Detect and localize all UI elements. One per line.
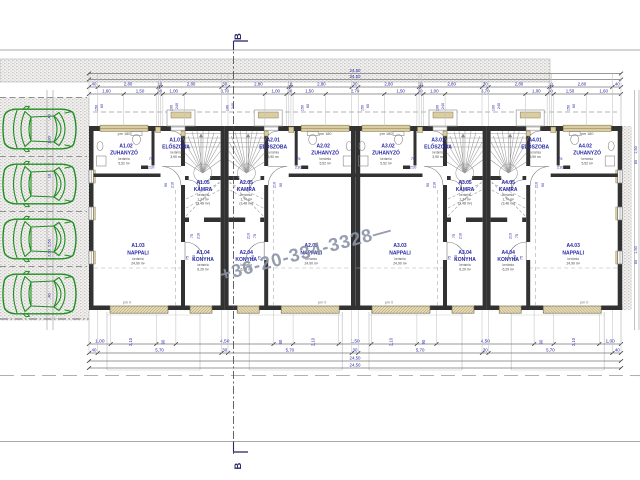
svg-text:2,60: 2,60 <box>47 248 52 257</box>
svg-text:90: 90 <box>421 339 426 344</box>
svg-text:5,70: 5,70 <box>286 347 295 352</box>
svg-text:10: 10 <box>287 81 292 86</box>
svg-text:A4.03: A4.03 <box>567 243 581 249</box>
svg-text:A1.02: A1.02 <box>119 144 133 150</box>
svg-text:1,00: 1,00 <box>430 88 439 93</box>
svg-text:60: 60 <box>634 160 638 164</box>
svg-text:30: 30 <box>353 347 358 352</box>
svg-text:2,10: 2,10 <box>571 337 576 346</box>
svg-text:90: 90 <box>164 183 168 187</box>
svg-text:1,00: 1,00 <box>605 338 615 344</box>
svg-text:(3,48 m²): (3,48 m²) <box>239 202 253 206</box>
svg-text:pm 0: pm 0 <box>580 300 588 304</box>
svg-text:,40: ,40 <box>614 81 621 86</box>
svg-text:ELŐSZOBA: ELŐSZOBA <box>259 144 287 151</box>
svg-text:ZUHANYZÓ: ZUHANYZÓ <box>372 149 400 157</box>
svg-text:A2.01: A2.01 <box>267 138 281 144</box>
svg-text:90: 90 <box>279 183 283 187</box>
svg-text:2,80: 2,80 <box>187 81 196 86</box>
svg-text:10: 10 <box>157 81 162 86</box>
svg-text:210: 210 <box>535 182 539 188</box>
svg-text:A2.02: A2.02 <box>317 144 331 150</box>
svg-text:240: 240 <box>441 103 445 109</box>
svg-text:A3.02: A3.02 <box>381 144 395 150</box>
svg-text:75: 75 <box>411 156 416 161</box>
svg-text:A3.05: A3.05 <box>458 180 472 186</box>
svg-text:1,00: 1,00 <box>169 88 178 93</box>
svg-text:6,29 m²: 6,29 m² <box>459 267 471 271</box>
svg-text:150: 150 <box>95 105 99 111</box>
svg-text:210: 210 <box>454 255 458 261</box>
svg-text:(3,48 m²): (3,48 m²) <box>501 202 515 206</box>
svg-text:B: B <box>233 462 244 469</box>
svg-text:10: 10 <box>47 173 52 178</box>
svg-text:ELŐSZOBA: ELŐSZOBA <box>424 144 452 151</box>
svg-text:NAPPALI: NAPPALI <box>562 251 584 257</box>
svg-text:3,90 m²: 3,90 m² <box>432 155 444 159</box>
svg-text:210: 210 <box>148 165 155 170</box>
svg-text:ELŐSZOBA: ELŐSZOBA <box>521 144 549 151</box>
svg-text:30: 30 <box>353 81 358 86</box>
svg-text:pm 0: pm 0 <box>123 300 131 304</box>
svg-text:240: 240 <box>497 103 501 109</box>
svg-text:24,50: 24,50 <box>350 74 362 79</box>
svg-text:1,50: 1,50 <box>136 88 145 93</box>
svg-text:30: 30 <box>222 347 227 352</box>
svg-text:1,00: 1,00 <box>532 88 541 93</box>
svg-text:240: 240 <box>231 103 235 109</box>
svg-text:pm 0: pm 0 <box>385 300 393 304</box>
svg-text:6,29 m²: 6,29 m² <box>502 267 514 271</box>
svg-text:90: 90 <box>426 183 430 187</box>
svg-text:pm 180: pm 180 <box>118 132 131 136</box>
svg-text:30: 30 <box>418 88 423 93</box>
svg-text:1,00: 1,00 <box>271 88 280 93</box>
svg-text:,40: ,40 <box>90 81 97 86</box>
svg-text:75: 75 <box>253 234 257 238</box>
svg-text:ZUHANYZÓ: ZUHANYZÓ <box>311 149 339 157</box>
svg-text:,40: ,40 <box>614 347 621 352</box>
svg-text:30: 30 <box>157 88 162 93</box>
svg-text:2,10: 2,10 <box>128 337 133 346</box>
svg-text:100: 100 <box>436 105 440 111</box>
svg-text:1,60: 1,60 <box>599 88 608 93</box>
svg-text:60: 60 <box>634 260 638 264</box>
svg-text:75: 75 <box>515 234 519 238</box>
svg-text:3,90 m²: 3,90 m² <box>170 155 182 159</box>
svg-text:10: 10 <box>418 81 423 86</box>
svg-text:75: 75 <box>452 234 456 238</box>
svg-text:24,50: 24,50 <box>350 355 362 360</box>
svg-text:(3,48 m²): (3,48 m²) <box>196 202 210 206</box>
svg-text:1,50: 1,50 <box>396 88 405 93</box>
svg-text:A4.02: A4.02 <box>579 144 593 150</box>
svg-text:1,50: 1,50 <box>566 88 575 93</box>
svg-text:pm 180: pm 180 <box>380 132 393 136</box>
svg-text:100: 100 <box>170 105 174 111</box>
svg-text:210: 210 <box>247 233 251 239</box>
svg-text:2,80: 2,80 <box>515 81 524 86</box>
svg-text:NAPPALI: NAPPALI <box>389 251 411 257</box>
svg-text:210: 210 <box>513 255 517 261</box>
svg-text:90: 90 <box>538 339 543 344</box>
svg-text:,40: ,40 <box>90 347 97 352</box>
svg-text:ZUHANYZÓ: ZUHANYZÓ <box>110 149 138 157</box>
svg-text:3,90 m²: 3,90 m² <box>267 155 279 159</box>
svg-text:90: 90 <box>541 183 545 187</box>
svg-text:30: 30 <box>483 347 488 352</box>
svg-text:5,52 m²: 5,52 m² <box>581 161 593 165</box>
svg-text:30: 30 <box>483 81 488 86</box>
svg-text:210: 210 <box>459 233 463 239</box>
svg-text:A1.01: A1.01 <box>169 138 183 144</box>
svg-text:210: 210 <box>273 182 277 188</box>
svg-text:100: 100 <box>492 105 496 111</box>
svg-text:ELŐSZOBA: ELŐSZOBA <box>162 144 190 151</box>
svg-text:60: 60 <box>572 104 576 108</box>
svg-text:75: 75 <box>520 256 524 260</box>
svg-text:210: 210 <box>509 233 513 239</box>
svg-text:240: 240 <box>175 103 179 109</box>
svg-text:A4.05: A4.05 <box>502 180 516 186</box>
svg-text:A1.05: A1.05 <box>196 180 210 186</box>
svg-text:,40: ,40 <box>47 292 52 298</box>
svg-text:5,52 m²: 5,52 m² <box>118 161 130 165</box>
svg-text:210: 210 <box>295 165 302 170</box>
svg-text:B: B <box>233 33 244 40</box>
svg-text:90: 90 <box>278 339 283 344</box>
svg-text:75: 75 <box>448 256 452 260</box>
svg-text:210: 210 <box>433 182 437 188</box>
svg-text:60: 60 <box>306 104 310 108</box>
svg-text:1,50: 1,50 <box>634 246 638 253</box>
svg-text:210: 210 <box>197 233 201 239</box>
svg-text:24,90 m²: 24,90 m² <box>393 261 407 265</box>
svg-text:60: 60 <box>100 104 104 108</box>
svg-text:150: 150 <box>567 105 571 111</box>
svg-text:A1.04: A1.04 <box>196 250 210 256</box>
svg-text:2,80: 2,80 <box>384 81 393 86</box>
svg-text:210: 210 <box>192 255 196 261</box>
svg-text:24,90 m²: 24,90 m² <box>131 261 145 265</box>
svg-text:2,80: 2,80 <box>447 81 456 86</box>
svg-text:A2.05: A2.05 <box>240 180 254 186</box>
svg-text:A3.04: A3.04 <box>458 250 472 256</box>
svg-text:6,29 m²: 6,29 m² <box>197 267 209 271</box>
svg-text:2,80: 2,80 <box>124 81 133 86</box>
svg-text:pm 180: pm 180 <box>581 132 594 136</box>
svg-text:10: 10 <box>548 81 553 86</box>
svg-text:pm 180: pm 180 <box>319 132 332 136</box>
svg-text:1,00: 1,00 <box>95 338 105 344</box>
svg-text:1,50: 1,50 <box>634 146 638 153</box>
svg-text:150: 150 <box>301 105 305 111</box>
svg-text:24,90 m²: 24,90 m² <box>567 261 581 265</box>
svg-text:30: 30 <box>548 88 553 93</box>
svg-text:5,52 m²: 5,52 m² <box>319 161 331 165</box>
svg-text:1,60: 1,60 <box>102 88 111 93</box>
svg-text:24,50: 24,50 <box>350 68 362 73</box>
svg-text:5,52 m²: 5,52 m² <box>380 161 392 165</box>
svg-text:A3.03: A3.03 <box>393 243 407 249</box>
svg-text:5,70: 5,70 <box>416 347 425 352</box>
svg-text:1,50: 1,50 <box>305 88 314 93</box>
svg-text:2,80: 2,80 <box>254 81 263 86</box>
svg-text:210: 210 <box>171 182 175 188</box>
svg-text:A4.01: A4.01 <box>529 138 543 144</box>
svg-text:1,80: 1,80 <box>47 135 52 144</box>
svg-text:2,10: 2,10 <box>389 337 394 346</box>
svg-text:75: 75 <box>186 256 190 260</box>
svg-text:30: 30 <box>287 88 292 93</box>
svg-text:150: 150 <box>361 105 365 111</box>
svg-text:75: 75 <box>190 234 194 238</box>
svg-text:60: 60 <box>366 104 370 108</box>
svg-text:2,10: 2,10 <box>310 337 315 346</box>
svg-text:NAPPALI: NAPPALI <box>127 251 149 257</box>
svg-text:ZUHANYZÓ: ZUHANYZÓ <box>573 149 601 157</box>
svg-text:5,70: 5,70 <box>155 347 164 352</box>
svg-text:3,90 m²: 3,90 m² <box>529 155 541 159</box>
svg-text:75: 75 <box>296 156 301 161</box>
svg-text:2,80: 2,80 <box>317 81 326 86</box>
svg-text:A3.01: A3.01 <box>431 138 445 144</box>
svg-text:210: 210 <box>410 165 417 170</box>
svg-text:100: 100 <box>226 105 230 111</box>
svg-text:2,80: 2,80 <box>578 81 587 86</box>
svg-text:90: 90 <box>161 339 166 344</box>
svg-text:75: 75 <box>558 156 563 161</box>
svg-text:75: 75 <box>149 156 154 161</box>
svg-text:5,70: 5,70 <box>546 347 555 352</box>
svg-text:(3,48 m²): (3,48 m²) <box>458 202 472 206</box>
svg-text:pm 0: pm 0 <box>318 300 326 304</box>
svg-text:210: 210 <box>557 165 564 170</box>
svg-text:24,50: 24,50 <box>350 362 362 367</box>
svg-text:30: 30 <box>222 81 227 86</box>
svg-text:2,50: 2,50 <box>47 238 52 247</box>
svg-text:A1.03: A1.03 <box>131 243 145 249</box>
